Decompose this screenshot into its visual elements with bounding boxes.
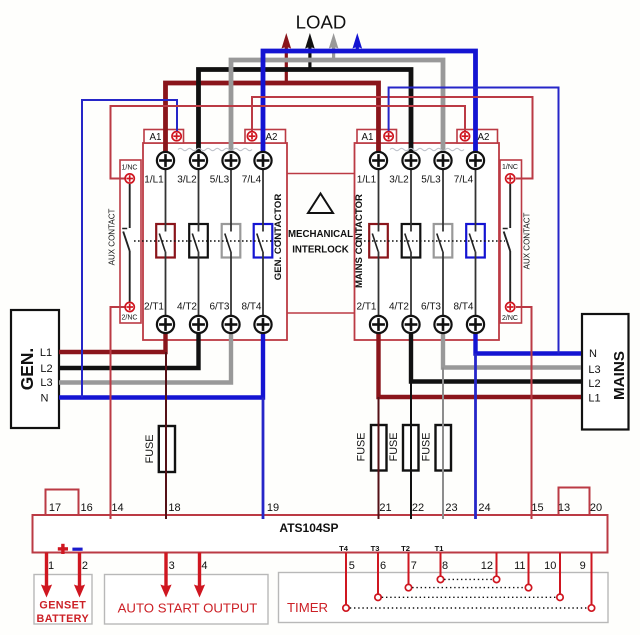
svg-text:FUSE: FUSE — [144, 435, 156, 464]
GEN A2 coil terminal — [247, 132, 256, 141]
GEN contactor terminal 3/L2 — [190, 152, 207, 169]
wire MAINS aux 2/NC to terminal 15 (red) — [516, 307, 532, 519]
wire GEN L3 (GEN box to 6/T3) — [59, 333, 231, 383]
svg-text:18: 18 — [168, 502, 180, 514]
wire MAINS L1 (2/T1 to MAINS box) — [379, 333, 582, 397]
svg-text:8/T4: 8/T4 — [241, 302, 261, 313]
svg-text:1/L1: 1/L1 — [144, 174, 164, 185]
GEN contactor A1 coil box — [144, 130, 184, 144]
svg-text:N: N — [41, 393, 49, 405]
svg-text:7/L4: 7/L4 — [242, 174, 262, 185]
timer wire terminal 7 — [408, 553, 410, 585]
svg-text:L2: L2 — [588, 378, 600, 390]
svg-text:T4: T4 — [339, 544, 349, 553]
wire GEN N (GEN box to 8/T4) — [59, 333, 263, 398]
fuse F1 (GEN, terminal 18) body — [159, 426, 175, 472]
MAINS source box — [582, 314, 629, 430]
timer wire terminal 10 — [559, 553, 561, 595]
svg-text:T3: T3 — [371, 544, 380, 553]
auto start output arrow (terminal 4) — [194, 553, 205, 598]
GEN contactor terminal 6/T3 — [222, 316, 239, 333]
svg-text:7/L4: 7/L4 — [454, 174, 474, 185]
wire MAINS L2 fuse feed to terminal 22 — [410, 382, 412, 520]
svg-text:8: 8 — [442, 560, 448, 572]
MAINS contactor pole contact L1 — [369, 224, 388, 258]
svg-text:TIMER: TIMER — [287, 600, 328, 615]
svg-text:BATTERY: BATTERY — [37, 613, 90, 625]
wire GEN A1 coil to GEN N (blue) — [82, 100, 177, 398]
MAINS contactor pole contact N — [466, 224, 485, 258]
timer wire terminal 6 — [377, 553, 379, 595]
wire MAINS L2 (4/T2 to MAINS box) — [411, 333, 581, 382]
svg-text:10: 10 — [544, 560, 556, 572]
wire L3 load bus (GEN 5/L3 to MAINS 5/L3) — [231, 60, 443, 153]
svg-text:16: 16 — [80, 502, 92, 514]
svg-text:MAINS CONTACTOR: MAINS CONTACTOR — [354, 194, 365, 288]
fuse F3 (MAINS L2, terminal 22) body — [403, 425, 419, 471]
svg-text:1/NC: 1/NC — [122, 164, 138, 171]
GEN contactor pole contact L3 — [222, 224, 241, 258]
wire MAINS A1 coil to MAINS N (blue) — [389, 88, 559, 354]
svg-text:14: 14 — [111, 502, 123, 514]
timer dotted link 6-10 — [382, 596, 556, 598]
svg-text:AUX CONTACT: AUX CONTACT — [108, 209, 117, 266]
wire L2 load bus (GEN 3/L2 to MAINS 3/L2) — [199, 70, 412, 154]
GEN contactor pole contact L1 — [156, 224, 175, 258]
GEN aux 1/NC terminal — [125, 174, 134, 183]
MAINS A1 coil terminal — [384, 132, 393, 141]
timer dotted link 7-11 — [412, 587, 525, 589]
svg-text:1/NC: 1/NC — [502, 164, 518, 171]
svg-text:3: 3 — [169, 560, 175, 572]
auto start output arrow (terminal 3) — [160, 553, 171, 598]
timer wire terminal 12 — [496, 553, 498, 577]
MAINS contactor coil — [390, 148, 464, 150]
svg-text:INTERLOCK: INTERLOCK — [292, 245, 349, 256]
MAINS aux contact NC switch — [509, 184, 511, 228]
svg-text:FUSE: FUSE — [388, 433, 400, 462]
svg-text:2: 2 — [82, 560, 88, 572]
svg-text:A2: A2 — [266, 132, 278, 143]
svg-text:L1: L1 — [588, 393, 600, 405]
battery minus symbol — [72, 548, 82, 551]
svg-text:6/T3: 6/T3 — [209, 302, 229, 313]
GENSET BATTERY box — [34, 575, 92, 625]
battery plus symbol — [58, 547, 68, 550]
wire MAINS A2 coil to GEN aux 1/NC (red) — [111, 106, 466, 179]
svg-text:1/L1: 1/L1 — [357, 174, 377, 185]
wire MAINS N (8/T4 to MAINS box) — [476, 333, 582, 354]
timer dotted link 5-9 — [350, 607, 588, 609]
fuse F2 (MAINS L1, terminal 21) body — [371, 425, 387, 471]
svg-text:N: N — [589, 348, 597, 360]
GEN contactor terminal 8/T4 — [254, 316, 271, 333]
MAINS contactor terminal 7/L4 — [467, 152, 484, 169]
MAINS contactor terminal 4/T2 — [402, 316, 419, 333]
svg-text:21: 21 — [379, 502, 391, 514]
svg-text:AUX CONTACT: AUX CONTACT — [523, 213, 532, 270]
MAINS contactor body — [355, 143, 500, 340]
GEN contactor terminal 7/L4 — [254, 152, 271, 169]
svg-text:T1: T1 — [435, 544, 445, 553]
svg-text:GENSET: GENSET — [39, 600, 86, 612]
GEN contactor terminal 4/T2 — [190, 316, 207, 333]
svg-text:GEN.: GEN. — [17, 348, 37, 391]
svg-text:6: 6 — [380, 560, 386, 572]
svg-text:4: 4 — [201, 560, 207, 572]
jumper terminal 17 to 16 — [46, 490, 79, 516]
timer wire terminal 11 — [528, 553, 530, 585]
svg-text:T2: T2 — [401, 544, 410, 553]
svg-text:5: 5 — [349, 560, 355, 572]
wire GEN N feed to terminal 19 — [262, 398, 265, 520]
svg-text:L2: L2 — [40, 363, 52, 375]
svg-text:ATS104SP: ATS104SP — [279, 521, 338, 535]
MAINS contactor A2 coil box — [457, 130, 498, 144]
svg-text:15: 15 — [531, 502, 543, 514]
wire MAINS L1 fuse feed to terminal 21 — [378, 397, 380, 519]
battery + output arrow (terminal 1) — [41, 553, 52, 598]
GEN contactor terminal 2/T1 — [157, 316, 174, 333]
LOAD arrow N (blue) — [353, 33, 363, 51]
svg-text:24: 24 — [478, 502, 490, 514]
svg-text:2/NC: 2/NC — [122, 315, 138, 322]
svg-text:MAINS: MAINS — [611, 351, 628, 400]
LOAD arrow L3 (gray) — [329, 33, 339, 60]
GEN contactor pole contact N — [254, 224, 273, 258]
svg-text:22: 22 — [412, 502, 424, 514]
svg-text:23: 23 — [445, 502, 457, 514]
svg-text:4/T2: 4/T2 — [389, 302, 409, 313]
svg-text:5/L3: 5/L3 — [210, 174, 230, 185]
wire GEN L2 (GEN box to 4/T2) — [59, 333, 199, 368]
svg-text:3/L2: 3/L2 — [389, 174, 409, 185]
svg-text:2/T1: 2/T1 — [356, 302, 376, 313]
mechanical interlock box — [287, 173, 355, 175]
svg-text:AUTO START OUTPUT: AUTO START OUTPUT — [118, 601, 258, 616]
MAINS contactor terminal 1/L1 — [370, 152, 387, 169]
GEN contactor pole contact L2 — [189, 224, 208, 258]
GEN contactor terminal 5/L3 — [222, 152, 239, 169]
GEN A1 coil terminal — [172, 132, 181, 141]
AUTO START OUTPUT box — [105, 575, 269, 625]
fuse F4 (MAINS L3, terminal 23) body — [436, 425, 452, 471]
GEN source box — [11, 310, 59, 428]
MAINS contactor terminal 3/L2 — [402, 152, 419, 169]
wire MAINS L3 (6/T3 to MAINS box) — [443, 333, 581, 368]
svg-text:19: 19 — [267, 502, 279, 514]
MAINS contactor terminal 6/T3 — [434, 316, 451, 333]
MAINS aux contact box — [500, 160, 522, 323]
GEN aux contact box — [120, 160, 141, 323]
MAINS contactor pole contact L2 — [402, 224, 421, 258]
LOAD arrow L1 (dark red) — [282, 33, 292, 83]
svg-text:3/L2: 3/L2 — [177, 174, 197, 185]
GEN contactor terminal 1/L1 — [157, 152, 174, 169]
svg-text:4/T2: 4/T2 — [177, 302, 197, 313]
timer wire terminal 9 — [591, 553, 593, 605]
svg-text:2/T1: 2/T1 — [144, 302, 164, 313]
svg-text:5/L3: 5/L3 — [421, 174, 441, 185]
wire L1 load bus (GEN 1/L1 to MAINS 1/L1) — [166, 83, 379, 153]
timer wire terminal 8 — [440, 553, 442, 577]
svg-text:LOAD: LOAD — [296, 12, 347, 33]
wire GEN L1 fuse feed to terminal 18 — [165, 352, 167, 519]
svg-text:A1: A1 — [362, 132, 374, 143]
LOAD arrow L2 (black) — [305, 33, 315, 70]
GEN aux contact NC switch — [129, 184, 131, 228]
battery - output arrow (terminal 2) — [74, 553, 85, 598]
svg-text:2/NC: 2/NC — [502, 315, 518, 322]
MAINS contactor terminal 8/T4 — [467, 316, 484, 333]
svg-text:11: 11 — [514, 560, 525, 572]
svg-text:9: 9 — [580, 560, 586, 572]
timer dotted link 8-12 — [444, 578, 493, 580]
wire MAINS L3 fuse feed to terminal 23 — [442, 368, 444, 520]
svg-text:6/T3: 6/T3 — [421, 302, 441, 313]
mechanical interlock triangle symbol — [308, 194, 333, 214]
svg-text:20: 20 — [590, 502, 602, 514]
MAINS contactor terminal 2/T1 — [370, 316, 387, 333]
MAINS contactor pole contact L3 — [434, 224, 453, 258]
svg-text:1: 1 — [48, 560, 54, 572]
ATS104SP controller box — [33, 515, 608, 553]
GEN aux 2/NC terminal — [125, 302, 134, 311]
svg-text:7: 7 — [411, 560, 417, 572]
TIMER box — [279, 573, 609, 623]
svg-text:8/T4: 8/T4 — [453, 302, 473, 313]
svg-text:GEN. CONTACTOR: GEN. CONTACTOR — [273, 194, 284, 281]
svg-text:A2: A2 — [478, 132, 490, 143]
svg-text:MECHANICAL: MECHANICAL — [288, 229, 353, 240]
svg-text:L1: L1 — [40, 347, 52, 359]
svg-text:L3: L3 — [588, 364, 600, 376]
svg-text:FUSE: FUSE — [356, 433, 368, 462]
MAINS aux 1/NC terminal — [506, 174, 515, 183]
svg-text:17: 17 — [49, 502, 61, 514]
wire N load bus (GEN 7/L4 to MAINS 7/L4) — [263, 51, 476, 153]
MAINS A2 coil terminal — [460, 132, 469, 141]
GEN contactor body — [143, 143, 287, 340]
svg-text:A1: A1 — [150, 132, 162, 143]
MAINS contactor terminal 5/L3 — [434, 152, 451, 169]
MAINS aux 2/NC terminal — [506, 302, 515, 311]
wire GEN aux 2/NC to terminal 14 (red) — [111, 307, 126, 519]
wire GEN L1 (GEN box to 2/T1) — [59, 333, 166, 352]
jumper terminal 13 to 20 — [559, 488, 590, 516]
MAINS mechanical linkage dashed line — [356, 240, 505, 242]
GEN contactor coil — [178, 148, 252, 150]
svg-text:12: 12 — [481, 560, 493, 572]
svg-text:L3: L3 — [40, 377, 52, 389]
timer wire terminal 5 — [345, 553, 347, 605]
svg-text:13: 13 — [558, 502, 570, 514]
MAINS contactor A1 coil box — [357, 130, 397, 144]
GEN mechanical linkage dashed line — [134, 240, 281, 242]
wire MAINS N feed to terminal 24 — [474, 354, 477, 520]
GEN contactor A2 coil box — [245, 130, 286, 144]
svg-text:FUSE: FUSE — [421, 433, 433, 462]
wire GEN A2 coil to MAINS aux 1/NC (red) — [252, 97, 533, 179]
